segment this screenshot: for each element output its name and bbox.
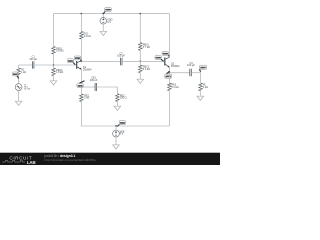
wire Q1 emitter down to emitter node (80, 69, 82, 87)
svg-text:2N3904: 2N3904 (171, 65, 180, 68)
wire RB21 to RB22 through base node 2 (139, 50, 141, 65)
node junction bottom rail V3 (115, 125, 117, 127)
voltage source V1 (15, 84, 30, 91)
wire CE1 to RE2 corner (97, 87, 118, 94)
wire left drop from rail to RB11 (53, 14, 55, 47)
svg-text:LAB: LAB (27, 160, 36, 165)
wire C1 to Q1 base (34, 64, 77, 66)
flag Q1 emitter voltage label (77, 81, 85, 88)
wire top VDD rail (54, 13, 170, 15)
ground G3 (137, 79, 144, 83)
svg-text:1.8 kΩ: 1.8 kΩ (56, 71, 63, 74)
voltage source V3 VEE (113, 130, 125, 137)
svg-text:100 µF: 100 µF (29, 58, 37, 61)
resistor RE1 (80, 94, 90, 102)
svg-text:1 kΩ: 1 kΩ (84, 97, 89, 100)
wire R1 to V1 (18, 76, 20, 84)
wire emitter node to RE1 (80, 87, 82, 94)
svg-text:4.73V: 4.73V (165, 75, 171, 78)
node junction rail-RC1 (81, 13, 83, 15)
wire RB22 to ground (139, 73, 141, 80)
node junction Q1 emitter (81, 86, 83, 88)
node junction Q2 emitter (169, 72, 171, 74)
wire RE2 to ground (116, 102, 118, 107)
flag node input voltage label (12, 72, 18, 78)
svg-text:100 µF: 100 µF (117, 55, 125, 58)
flag Q2 collector voltage label (162, 52, 169, 57)
wire V3 to ground (115, 137, 117, 145)
svg-text:1.87V: 1.87V (68, 61, 74, 63)
resistor R1 (17, 68, 27, 76)
svg-text:-9.0V: -9.0V (120, 123, 126, 125)
resistor RL (199, 83, 208, 91)
svg-text:5.36V: 5.36V (156, 58, 162, 60)
resistor RB11 (52, 46, 64, 54)
svg-text:100 Ω: 100 Ω (120, 97, 127, 100)
svg-text:5.1 kΩ: 5.1 kΩ (171, 86, 178, 89)
transistor Q2 (165, 57, 180, 68)
flag output node voltage label (199, 65, 206, 72)
flag Q2 emitter voltage label (165, 71, 172, 78)
capacitor C3 (187, 62, 195, 76)
capacitor C1 (29, 55, 37, 68)
svg-text:100 µF: 100 µF (187, 64, 195, 67)
wire rail to RC1 (80, 14, 82, 32)
svg-text:6.2 kΩ: 6.2 kΩ (143, 68, 150, 71)
ground G7 (113, 145, 120, 149)
wire emitter node 2 to C3 (169, 72, 189, 74)
flag Q1 base voltage label (67, 59, 75, 65)
svg-text:4.7 kΩ: 4.7 kΩ (143, 46, 150, 49)
svg-text:0.0V: 0.0V (200, 68, 205, 70)
wire rail to VDD source (102, 14, 104, 18)
resistor RB22 (139, 65, 151, 73)
flag bottom rail voltage label (117, 121, 126, 127)
ground G5 (114, 106, 121, 110)
resistor RE2 (116, 94, 127, 102)
wire input horizontal to C1 (19, 64, 33, 66)
svg-text:1 kΩ: 1 kΩ (21, 71, 26, 74)
node junction rail-RB21 (139, 13, 141, 15)
capacitor CE1 (90, 76, 98, 91)
svg-text:5.6 kΩ: 5.6 kΩ (56, 50, 63, 53)
node junction rail-VDD source (102, 13, 104, 15)
ground G2 (100, 31, 107, 35)
wire bottom rail to V3 (115, 126, 117, 130)
ground G1 (50, 81, 57, 85)
flag node VDD voltage label (103, 8, 111, 14)
wire RC1 to Q1 collector node (80, 39, 82, 61)
capacitor C2 (117, 52, 125, 65)
footer author/title text (44, 154, 97, 162)
svg-text:9.00V: 9.00V (105, 10, 111, 12)
ground G6 (197, 96, 204, 100)
svg-text:9 V: 9 V (120, 133, 124, 136)
wire RE1 down to bottom rail (81, 102, 169, 126)
wire RE3 down to bottom rail (168, 91, 170, 126)
wire VDD source to ground (102, 24, 104, 31)
wire rail to RB21 (139, 14, 141, 43)
transistor Q1 (77, 61, 92, 72)
wire input node corner to R1 (18, 65, 20, 68)
resistor RB21 (139, 43, 151, 51)
node junction base divider 1 (53, 64, 55, 66)
wire Q2 emitter to emitter node 2 (168, 67, 170, 72)
wire Q1 collector to C2 (81, 60, 120, 62)
resistor RC1 (80, 31, 91, 39)
wire RB12 to ground (53, 76, 55, 81)
svg-text:10 kHz: 10 kHz (24, 88, 31, 90)
svg-text:9 V: 9 V (107, 21, 111, 24)
node junction base divider 2 (139, 61, 141, 63)
wire V1 to ground (18, 91, 20, 102)
svg-text:2N3904: 2N3904 (83, 69, 92, 72)
footer bar (0, 153, 220, 165)
resistor RE3 (168, 83, 179, 91)
svg-text:2.4 kΩ: 2.4 kΩ (84, 35, 91, 38)
svg-text:0mV: 0mV (13, 74, 18, 76)
node junction Q1 collector (81, 61, 83, 63)
wire emitter node 2 to RE3 (168, 73, 170, 83)
svg-text:5.36V: 5.36V (75, 58, 81, 60)
flag Q2 base voltage label (155, 56, 164, 62)
CircuitLab logo wordmark (2, 156, 35, 165)
wire rail right end to Q2 collector (168, 14, 170, 57)
svg-text:http://circuitlab.com/c/cah42m: http://circuitlab.com/c/cah42mhdb553s (45, 158, 97, 162)
voltage source V2 VDD (100, 18, 113, 25)
svg-text:100 µF: 100 µF (90, 79, 98, 82)
wire C3 to RL corner (191, 73, 200, 83)
wire RB11 to RB12 through base node (53, 54, 55, 68)
ground G4 (15, 101, 22, 105)
flag Q1 collector voltage label (74, 56, 81, 61)
wire RL to ground (200, 91, 202, 97)
wire C2 to Q2 base (122, 60, 165, 62)
wire emitter node to CE1 (81, 86, 95, 88)
svg-text:9.00V: 9.00V (163, 54, 169, 56)
resistor RB12 (52, 68, 64, 76)
svg-text:1 kΩ: 1 kΩ (203, 86, 208, 89)
